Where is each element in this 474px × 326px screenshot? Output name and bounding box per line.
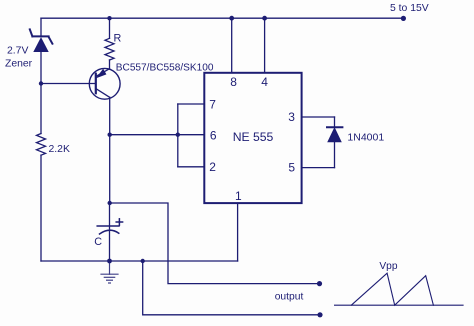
ground	[101, 261, 118, 283]
wire left rail lower	[40, 155, 42, 261]
wire diode cathode lead	[334, 117, 336, 127]
wire output return	[143, 261, 320, 315]
node capacitor top junction	[108, 201, 112, 205]
node pin 4 junction	[262, 16, 267, 21]
svg-text:6: 6	[210, 129, 217, 143]
node bracket junction	[176, 133, 180, 137]
wire left rail (zener to base node)	[40, 52, 42, 134]
wire waveform baseline	[335, 304, 463, 306]
svg-text:5 to 15V: 5 to 15V	[390, 3, 429, 14]
capacitor C1	[97, 219, 122, 234]
svg-text:R: R	[114, 33, 122, 45]
wire pin 8 to rail	[231, 18, 233, 73]
svg-text:8: 8	[230, 75, 237, 89]
svg-text:BC557/BC558/SK100: BC557/BC558/SK100	[116, 63, 214, 74]
wire cap node to output	[110, 203, 320, 284]
capacitor C1 lead	[109, 203, 111, 229]
diode D2 1N4001	[327, 127, 342, 142]
node pin 8 junction	[229, 16, 234, 21]
svg-text:2: 2	[209, 160, 216, 174]
svg-text:Zener: Zener	[5, 59, 33, 70]
resistor R2 R	[109, 18, 111, 38]
svg-text:3: 3	[288, 110, 295, 124]
svg-text:2.2K: 2.2K	[49, 144, 70, 155]
wire collector to pin 6	[110, 134, 204, 136]
transistor Q1 BC557/BC558/SK100	[89, 68, 120, 99]
wire pin 4 to rail	[264, 18, 266, 73]
wire bracket vertical	[177, 104, 179, 167]
waveform sawtooth	[351, 273, 433, 305]
node output terminal lower	[317, 312, 322, 317]
svg-text:1N4001: 1N4001	[347, 132, 384, 144]
wire pin 1	[237, 203, 239, 261]
wire collector down	[109, 97, 111, 203]
node supply terminal	[401, 16, 406, 21]
wire pin 5 stub	[302, 167, 335, 169]
wire cap bottom lead	[109, 232, 111, 262]
svg-text:1: 1	[235, 189, 242, 203]
svg-text:output: output	[275, 291, 304, 302]
svg-text:C: C	[94, 236, 102, 248]
wire pin 2 stub	[178, 166, 204, 168]
zener diode D1 2.7V	[30, 29, 53, 51]
svg-text:7: 7	[209, 98, 216, 112]
svg-text:Vpp: Vpp	[379, 261, 397, 272]
node base junction	[39, 81, 43, 85]
node output return junction	[141, 259, 145, 263]
wire pin 3 stub	[302, 116, 335, 118]
wire bottom rail	[41, 260, 238, 262]
svg-text:5: 5	[288, 161, 295, 175]
wire pin 7 stub	[178, 103, 204, 105]
wire diode anode lead	[334, 142, 336, 168]
node output terminal upper	[317, 281, 322, 286]
wire top supply rail	[41, 17, 403, 19]
op-amp U1 NE 555	[204, 73, 301, 203]
svg-text:NE 555: NE 555	[233, 130, 274, 144]
node R top junction	[107, 16, 111, 20]
node ground junction	[107, 259, 112, 264]
svg-text:4: 4	[261, 75, 268, 89]
resistor R1 2.2K	[37, 134, 46, 156]
wire base	[41, 83, 96, 85]
svg-text:2.7V: 2.7V	[7, 46, 28, 57]
wire left rail upper (supply to zener)	[40, 18, 42, 36]
node collector junction	[108, 133, 112, 137]
